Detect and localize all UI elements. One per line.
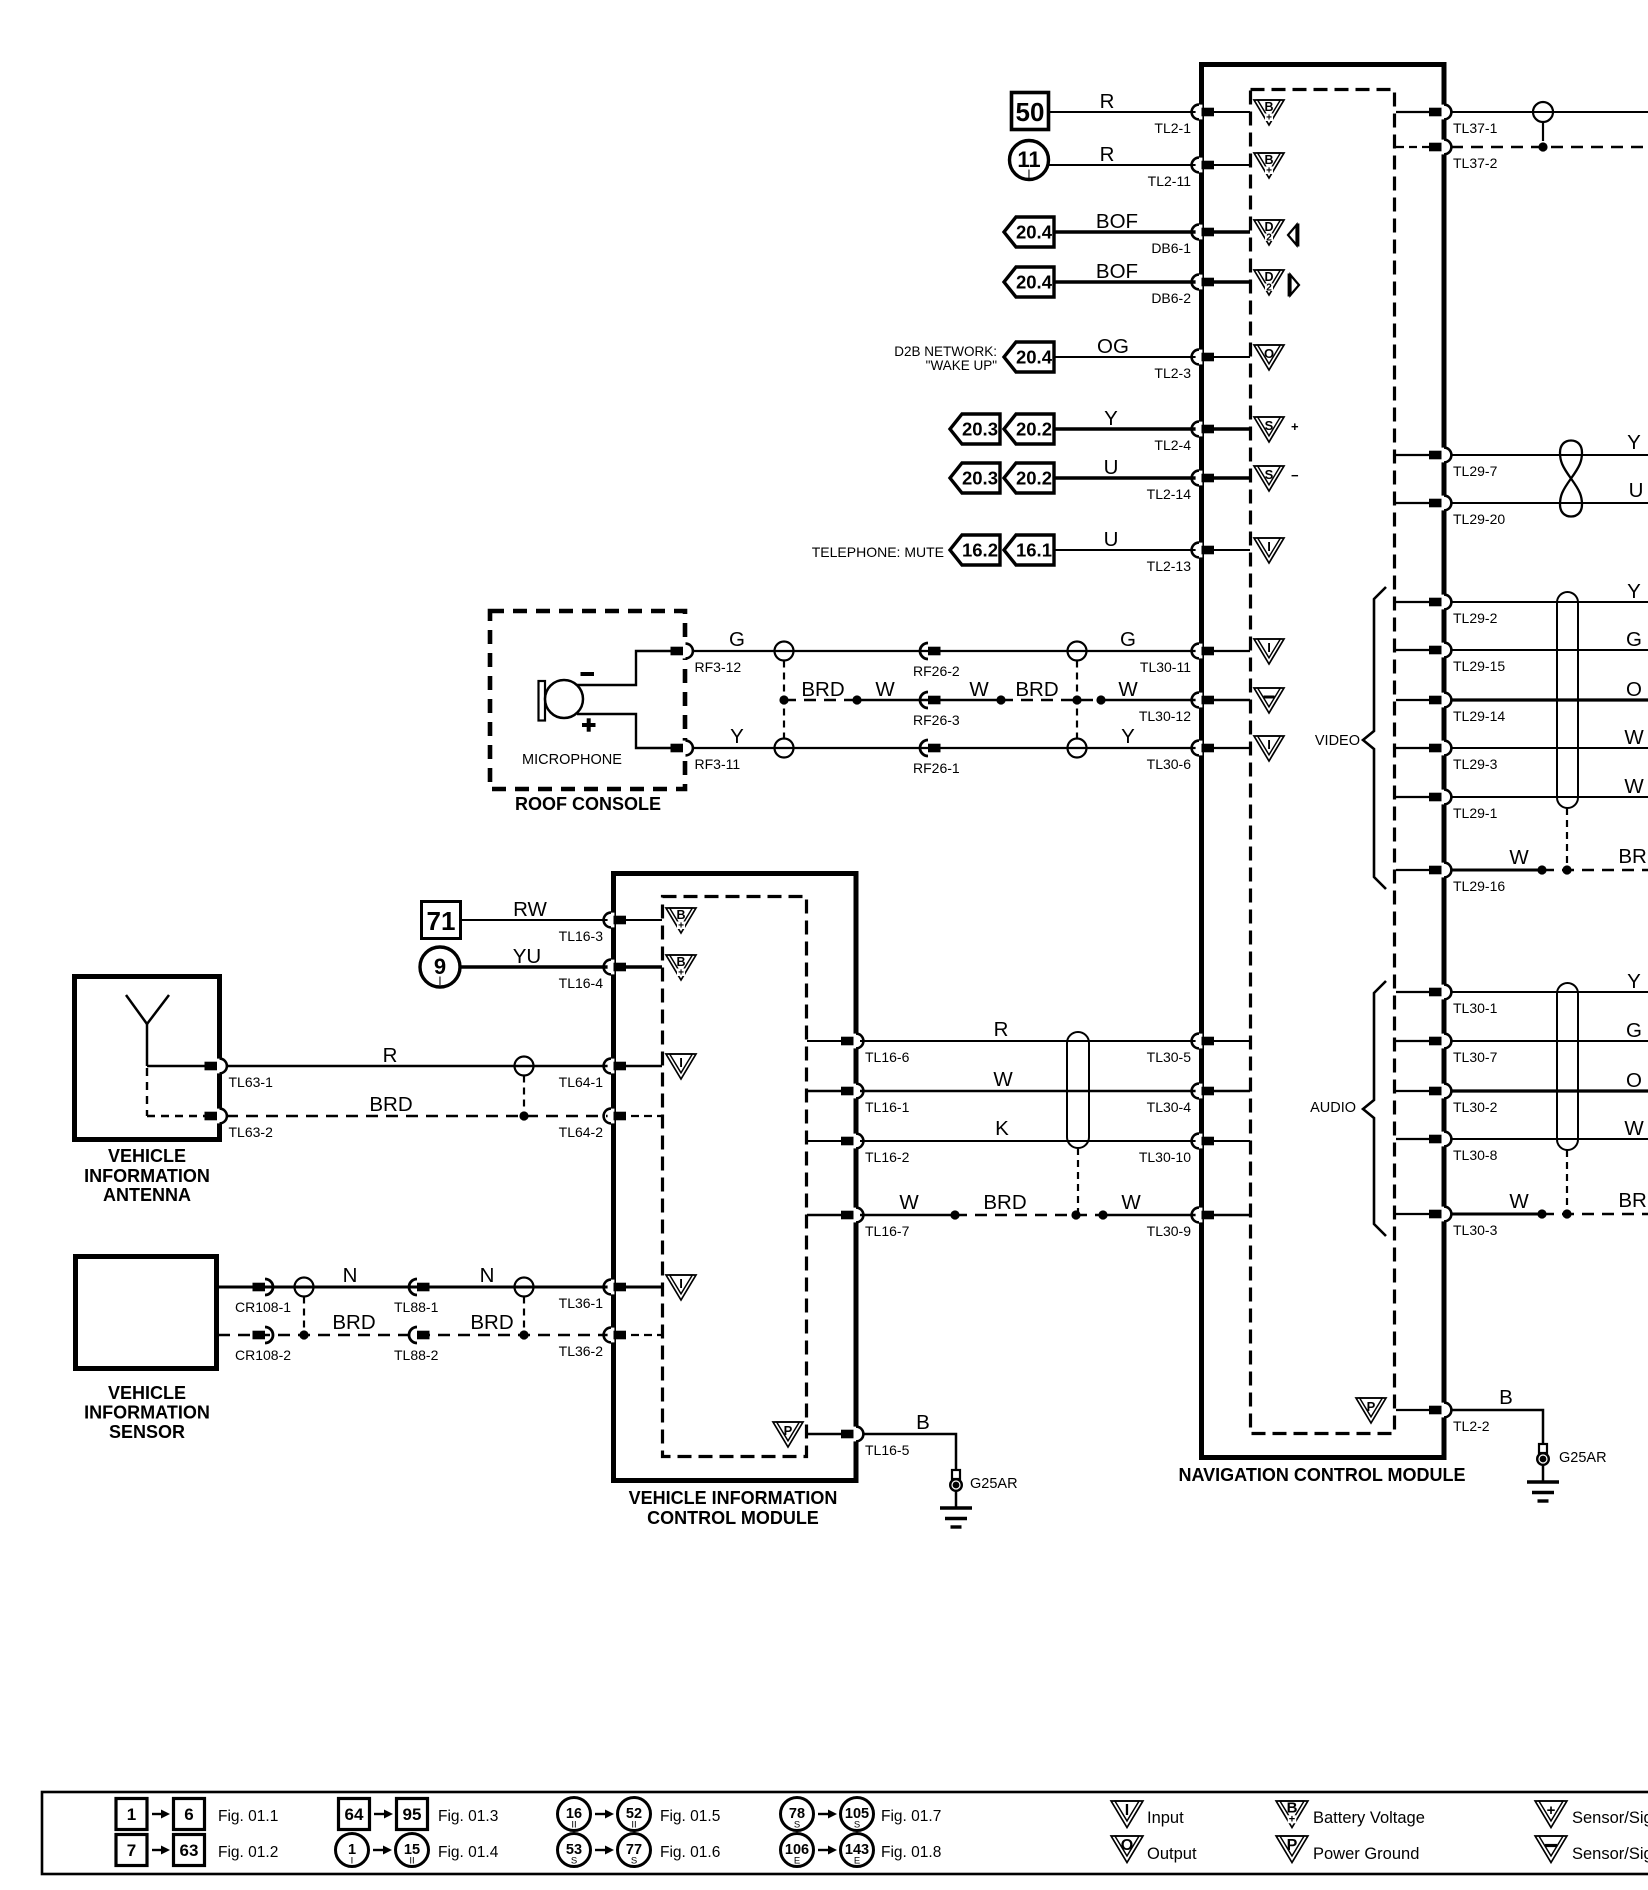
- pin TL16-4: [608, 960, 615, 975]
- svg-text:64: 64: [345, 1805, 364, 1824]
- svg-text:R: R: [383, 1044, 398, 1067]
- svg-text:TL29-20: TL29-20: [1453, 511, 1505, 527]
- legend fig 01.4: [336, 1834, 369, 1867]
- svg-text:S: S: [571, 1856, 577, 1867]
- svg-text:I: I: [1027, 169, 1030, 181]
- svg-text:Battery Voltage: Battery Voltage: [1313, 1809, 1425, 1827]
- svg-text:W: W: [1118, 678, 1138, 701]
- svg-text:W: W: [1624, 1117, 1644, 1140]
- symbol input TL2-13: [1254, 538, 1284, 563]
- symbol battery voltage TL16-4: [666, 955, 696, 980]
- VICM inner stubs left: [618, 919, 662, 921]
- svg-text:S: S: [794, 1820, 800, 1831]
- connector box 50: [1012, 93, 1049, 130]
- wire W to TL30-12: [1101, 699, 1197, 701]
- svg-text:TL29-3: TL29-3: [1453, 756, 1498, 772]
- inline connector circle TL37-1: [1533, 102, 1553, 122]
- svg-text:TL2-13: TL2-13: [1147, 558, 1192, 574]
- vehicle information antenna box: [75, 977, 220, 1140]
- svg-text:W: W: [1121, 1191, 1141, 1214]
- symbol power ground TL16-5: [773, 1422, 803, 1447]
- symbol input TL30-6: [1254, 736, 1284, 761]
- pin TL29-2: [1441, 595, 1448, 610]
- legend symbol input: [1111, 1801, 1143, 1828]
- junction dot: [519, 1111, 528, 1120]
- wire O audio TL30 out y=1091: [1451, 1089, 1648, 1092]
- svg-text:20.4: 20.4: [1016, 272, 1053, 293]
- svg-text:P: P: [1287, 1837, 1298, 1854]
- svg-text:INFORMATION: INFORMATION: [84, 1403, 210, 1423]
- svg-text:TL29-14: TL29-14: [1453, 708, 1505, 724]
- svg-text:TL29-1: TL29-1: [1453, 805, 1498, 821]
- legend fig 01.8: [781, 1834, 814, 1867]
- pin TL16-1: [853, 1084, 860, 1099]
- svg-text:I: I: [438, 976, 441, 988]
- speaker glyph right: [1291, 275, 1300, 295]
- svg-text:TELEPHONE: MUTE: TELEPHONE: MUTE: [812, 544, 944, 560]
- svg-text:TL30-5: TL30-5: [1147, 1049, 1192, 1065]
- AUDIO brace: [1363, 981, 1386, 1236]
- svg-text:BRD: BRD: [1618, 1189, 1648, 1212]
- connector arrow 20.3 (U): [950, 463, 1000, 493]
- audio shield capsule: [1557, 983, 1578, 1150]
- pin TL30-5: [1196, 1034, 1203, 1049]
- svg-text:P: P: [784, 1423, 793, 1438]
- wire R antenna TL63-1 to TL64-1: [147, 1065, 208, 1068]
- wire Y RF3-11 to TL30-6: [692, 747, 1197, 749]
- svg-text:Fig. 01.2: Fig. 01.2: [218, 1844, 278, 1861]
- wire OG to TL2-3: [1054, 356, 1197, 358]
- splice dot: [996, 695, 1005, 704]
- legend fig 01.3: [339, 1799, 370, 1830]
- svg-text:Fig. 01.5: Fig. 01.5: [660, 1808, 720, 1825]
- navigation control module U2 outer box: [1202, 65, 1445, 1458]
- svg-text:Sensor/Sig: Sensor/Sig: [1572, 1809, 1648, 1827]
- svg-text:W: W: [993, 1068, 1013, 1091]
- vehicle information control module U1 outer box: [614, 874, 857, 1481]
- svg-text:BRD: BRD: [332, 1311, 375, 1334]
- wire Y audio TL30 out y=992: [1451, 991, 1648, 993]
- connector RF26-3: [920, 692, 928, 708]
- pin TL2-1: [1196, 105, 1203, 120]
- symbol input TL64-1: [666, 1054, 696, 1079]
- svg-text:U: U: [1104, 528, 1119, 551]
- wire U TL29-20 out: [1451, 502, 1648, 504]
- svg-text:Fig. 01.7: Fig. 01.7: [881, 1808, 941, 1825]
- junction dot right drain: [1072, 695, 1081, 704]
- wire RW from 71 to TL16-3: [461, 919, 609, 921]
- svg-text:Y: Y: [730, 725, 744, 748]
- svg-text:2: 2: [1266, 233, 1272, 244]
- svg-text:50: 50: [1016, 97, 1045, 127]
- svg-text:TL30-11: TL30-11: [1140, 659, 1191, 675]
- NCM inner stubs left: [1206, 111, 1250, 113]
- pin RF3-12: [682, 644, 689, 659]
- wire Y TL29-7 out: [1451, 454, 1648, 456]
- svg-text:INFORMATION: INFORMATION: [84, 1166, 210, 1186]
- svg-text:O: O: [1264, 346, 1274, 361]
- pin TL63-1: [216, 1059, 223, 1074]
- svg-text:TL30-7: TL30-7: [1453, 1049, 1498, 1065]
- svg-text:TL29-7: TL29-7: [1453, 463, 1498, 479]
- wire U to TL2-13: [1054, 549, 1197, 551]
- symbol D2 right DB6-2: [1254, 270, 1284, 295]
- svg-text:TL2-11: TL2-11: [1148, 173, 1192, 189]
- svg-text:16.2: 16.2: [962, 540, 998, 561]
- inline connector circle on N wire right: [515, 1278, 534, 1297]
- svg-text:I: I: [351, 1856, 354, 1867]
- svg-text:W: W: [1509, 1190, 1529, 1213]
- inline connector circle on Y wire: [775, 739, 794, 758]
- svg-text:O: O: [1626, 678, 1642, 701]
- pin TL29-16: [1441, 863, 1448, 878]
- svg-text:N: N: [480, 1264, 495, 1287]
- svg-text:I: I: [679, 1276, 683, 1291]
- microphone minus sign: [581, 672, 595, 676]
- wire K TL16-2 to TL30-10: [860, 1140, 1197, 1142]
- vehicle information control module inner dashed box: [663, 897, 807, 1457]
- svg-text:Y: Y: [1104, 407, 1118, 430]
- svg-text:63: 63: [180, 1841, 199, 1860]
- pin TL30-9: [1196, 1208, 1203, 1223]
- legend fig 01.5: [558, 1798, 591, 1831]
- pin TL64-1: [608, 1059, 615, 1074]
- wire BOF to DB6-1: [1054, 230, 1197, 233]
- svg-text:TL16-7: TL16-7: [865, 1223, 910, 1239]
- pin DB6-2: [1196, 275, 1203, 290]
- wire W video TL29 out y=748: [1451, 747, 1648, 749]
- microphone symbol: [539, 681, 546, 721]
- pin TL30-7: [1441, 1034, 1448, 1049]
- wire TL37-1 out: [1451, 111, 1648, 113]
- svg-text:VEHICLE: VEHICLE: [108, 1383, 186, 1403]
- pin TL29-3: [1441, 741, 1448, 756]
- svg-text:G25AR: G25AR: [1559, 1450, 1607, 1466]
- drop from circle to TL37-2: [1542, 122, 1544, 141]
- wire B TL2-2 to ground G25AR: [1451, 1410, 1543, 1445]
- svg-text:TL64-2: TL64-2: [559, 1124, 604, 1140]
- svg-text:U: U: [1629, 479, 1644, 502]
- svg-text:OG: OG: [1097, 335, 1129, 358]
- ground G25AR (VICM): [952, 1470, 960, 1479]
- wire G RF3-12 to TL30-11: [692, 650, 1197, 652]
- svg-text:TL63-2: TL63-2: [229, 1124, 274, 1140]
- svg-text:G: G: [1626, 1019, 1642, 1042]
- legend symbol output: [1111, 1836, 1143, 1863]
- svg-text:I: I: [1267, 737, 1271, 752]
- svg-text:W: W: [969, 678, 989, 701]
- svg-text:+: +: [1266, 113, 1272, 124]
- legend box: [42, 1792, 1648, 1874]
- svg-text:K: K: [995, 1117, 1009, 1140]
- pin TL30-4: [1196, 1084, 1203, 1099]
- pin TL30-10: [1196, 1134, 1203, 1149]
- pin TL2-13: [1196, 543, 1203, 558]
- svg-text:Sensor/Sig: Sensor/Sig: [1572, 1845, 1648, 1863]
- svg-text:Fig. 01.1: Fig. 01.1: [218, 1808, 278, 1825]
- microphone plus sign: [582, 723, 596, 727]
- pin TL30-3: [1441, 1207, 1448, 1222]
- svg-text:O: O: [1626, 1069, 1642, 1092]
- connector arrow 20.2 (U): [1004, 463, 1054, 493]
- svg-text:MICROPHONE: MICROPHONE: [522, 752, 622, 768]
- pin TL16-2: [853, 1134, 860, 1149]
- inline connector circle on G wire: [775, 642, 794, 661]
- drain dashed drop: [523, 1076, 525, 1117]
- svg-text:TL30-6: TL30-6: [1147, 756, 1192, 772]
- pin TL16-5: [853, 1427, 860, 1442]
- svg-text:20.2: 20.2: [1016, 419, 1052, 440]
- svg-text:R: R: [994, 1018, 1009, 1041]
- legend fig 01.1: [116, 1799, 147, 1830]
- pin TL16-3: [608, 913, 615, 928]
- pin TL30-8: [1441, 1132, 1448, 1147]
- svg-text:VIDEO: VIDEO: [1315, 733, 1360, 749]
- pin TL16-6: [853, 1034, 860, 1049]
- drain dashed vertical right: [1076, 661, 1078, 739]
- symbol battery voltage TL16-3: [666, 908, 696, 933]
- legend symbol power ground: [1276, 1836, 1308, 1863]
- video shield capsule: [1557, 592, 1578, 808]
- wire B TL16-5 to ground G25AR: [863, 1434, 956, 1471]
- svg-text:TL36-1: TL36-1: [559, 1295, 604, 1311]
- vehicle information sensor box: [76, 1257, 217, 1369]
- wire U to TL2-14: [1054, 476, 1197, 479]
- pin TL29-14: [1441, 693, 1448, 708]
- pin TL29-7: [1441, 448, 1448, 463]
- symbol D2 left TL DB6-1: [1254, 220, 1284, 245]
- svg-text:ANTENNA: ANTENNA: [103, 1185, 191, 1205]
- svg-text:TL64-1: TL64-1: [559, 1074, 604, 1090]
- svg-text:BRD: BRD: [1015, 678, 1058, 701]
- video shield drain: [1566, 808, 1568, 870]
- svg-text:II: II: [631, 1820, 636, 1831]
- svg-text:Fig. 01.6: Fig. 01.6: [660, 1844, 720, 1861]
- svg-text:I: I: [1125, 1802, 1129, 1819]
- svg-text:TL29-2: TL29-2: [1453, 610, 1498, 626]
- pin TL37-1: [1441, 105, 1448, 120]
- svg-text:TL16-4: TL16-4: [559, 975, 604, 991]
- wire W shield TL30-3: [1451, 1213, 1542, 1216]
- svg-text:20.4: 20.4: [1016, 222, 1053, 243]
- svg-text:W: W: [875, 678, 895, 701]
- svg-text:D2B NETWORK:: D2B NETWORK:: [894, 344, 997, 359]
- svg-text:7: 7: [127, 1841, 136, 1860]
- legend fig 01.2: [116, 1835, 147, 1866]
- wire W audio TL30 out y=1139: [1451, 1138, 1648, 1140]
- svg-text:Fig. 01.3: Fig. 01.3: [438, 1808, 498, 1825]
- legend symbol sensor plus: [1535, 1801, 1567, 1828]
- inline connector circle on R wire: [515, 1057, 534, 1076]
- svg-text:20.4: 20.4: [1016, 347, 1053, 368]
- svg-text:TL29-16: TL29-16: [1453, 878, 1505, 894]
- pin TL2-3: [1196, 350, 1203, 365]
- pin TL29-1: [1441, 790, 1448, 805]
- svg-text:BRD: BRD: [801, 678, 844, 701]
- svg-text:6: 6: [184, 1805, 193, 1824]
- connector arrow 20.2 (Y): [1004, 414, 1054, 444]
- connector arrow 20.4 (DB6-2): [1004, 267, 1054, 297]
- wire Y to TL2-4: [1054, 427, 1197, 430]
- wire W TL16-1 to TL30-4: [860, 1090, 1197, 1093]
- pin TL29-15: [1441, 643, 1448, 658]
- svg-text:TL29-15: TL29-15: [1453, 658, 1505, 674]
- svg-text:S: S: [631, 1856, 637, 1867]
- wire BRD drain to W splice: [784, 699, 857, 701]
- svg-text:TL30-9: TL30-9: [1147, 1223, 1192, 1239]
- wire TL37-2 dashed out: [1451, 146, 1648, 149]
- symbol power ground TL2-2: [1356, 1398, 1386, 1423]
- symbol output TL2-3: [1254, 345, 1284, 370]
- svg-text:−: −: [1291, 468, 1299, 483]
- legend fig 01.6: [558, 1834, 591, 1867]
- svg-text:Power Ground: Power Ground: [1313, 1845, 1419, 1863]
- svg-text:TL16-6: TL16-6: [865, 1049, 910, 1065]
- svg-text:TL30-1: TL30-1: [1453, 1000, 1498, 1016]
- svg-text:II: II: [409, 1856, 414, 1867]
- twisted pair symbol: [1560, 441, 1582, 479]
- connector TL88-1: [409, 1279, 417, 1295]
- pin TL2-14: [1196, 471, 1203, 486]
- svg-text:+: +: [1547, 1802, 1556, 1819]
- svg-text:II: II: [571, 1820, 576, 1831]
- svg-text:TL63-1: TL63-1: [229, 1074, 274, 1090]
- pin TL29-20: [1441, 496, 1448, 511]
- pin TL30-2: [1441, 1084, 1448, 1099]
- speaker glyph left: [1288, 225, 1297, 245]
- wire R from 50 to TL2-1: [1050, 111, 1197, 113]
- svg-text:YU: YU: [513, 945, 541, 968]
- svg-text:+: +: [678, 921, 684, 932]
- wire BRD antenna TL63-2 to TL64-2: [146, 1068, 148, 1116]
- connector box 71: [422, 902, 461, 939]
- svg-text:TL30-2: TL30-2: [1453, 1099, 1498, 1115]
- legend symbol sensor minus: [1535, 1836, 1567, 1863]
- wire YU from 9 to TL16-4: [460, 965, 609, 968]
- antenna symbol: [126, 995, 147, 1024]
- svg-text:W: W: [899, 1191, 919, 1214]
- svg-text:G: G: [729, 628, 745, 651]
- svg-text:TL2-3: TL2-3: [1154, 365, 1191, 381]
- svg-text:S: S: [854, 1820, 860, 1831]
- inline connector circle on N wire: [295, 1278, 314, 1297]
- connector CR108-1: [253, 1283, 266, 1292]
- svg-text:TL30-10: TL30-10: [1139, 1149, 1191, 1165]
- pin TL2-2: [1441, 1403, 1448, 1418]
- symbol sensor minus TL2-14: [1254, 466, 1284, 491]
- svg-text:2: 2: [1266, 283, 1272, 294]
- connector RF26-1: [920, 740, 928, 756]
- svg-text:I: I: [1267, 640, 1271, 655]
- symbol minus TL30-12: [1254, 688, 1284, 713]
- svg-text:O: O: [1121, 1837, 1133, 1854]
- svg-text:W: W: [1624, 775, 1644, 798]
- svg-text:Fig. 01.4: Fig. 01.4: [438, 1844, 499, 1861]
- pin DB6-1: [1196, 225, 1203, 240]
- svg-text:G: G: [1626, 628, 1642, 651]
- pin TL63-2: [216, 1109, 223, 1124]
- connector arrow 20.3 (Y): [950, 414, 1000, 444]
- pin TL37-2: [1441, 140, 1448, 155]
- svg-text:TL88-2: TL88-2: [394, 1347, 439, 1363]
- symbol battery voltage TL2-11: [1254, 153, 1284, 178]
- svg-text:CONTROL MODULE: CONTROL MODULE: [647, 1508, 819, 1528]
- connector arrow 20.4 (TL2-3): [1004, 342, 1054, 372]
- svg-text:20.3: 20.3: [962, 419, 998, 440]
- svg-text:Fig. 01.8: Fig. 01.8: [881, 1844, 941, 1861]
- svg-text:P: P: [1367, 1399, 1376, 1414]
- svg-text:VEHICLE INFORMATION: VEHICLE INFORMATION: [629, 1488, 838, 1508]
- svg-text:TL16-2: TL16-2: [865, 1149, 910, 1165]
- pin TL36-2: [608, 1328, 615, 1343]
- splice dot: [852, 695, 861, 704]
- connector TL88-2: [409, 1327, 417, 1343]
- wire R from 11 to TL2-11: [1048, 164, 1197, 166]
- svg-text:E: E: [794, 1856, 800, 1867]
- svg-text:Input: Input: [1147, 1809, 1184, 1827]
- pin TL36-1: [608, 1280, 615, 1295]
- ground G25AR (NCM): [1539, 1444, 1547, 1453]
- symbol input TL30-11: [1254, 639, 1284, 664]
- legend fig 01.7: [781, 1798, 814, 1831]
- connector arrow 16.1: [1004, 535, 1054, 565]
- svg-text:RF26-1: RF26-1: [913, 760, 960, 776]
- connector CR108-2: [253, 1331, 266, 1340]
- svg-text:TL2-4: TL2-4: [1154, 437, 1191, 453]
- svg-text:N: N: [343, 1264, 358, 1287]
- svg-text:RF3-12: RF3-12: [695, 659, 742, 675]
- svg-text:I: I: [1267, 539, 1271, 554]
- svg-text:BOF: BOF: [1096, 260, 1138, 283]
- pin TL30-1: [1441, 985, 1448, 1000]
- wire BOF to DB6-2: [1054, 280, 1197, 283]
- svg-text:+: +: [678, 968, 684, 979]
- wire N sensor to TL36-1: [218, 1286, 609, 1289]
- svg-text:U: U: [1104, 456, 1119, 479]
- svg-text:20.3: 20.3: [962, 468, 998, 489]
- VIDEO brace: [1363, 587, 1386, 889]
- wire W shield TL29-16: [1451, 869, 1542, 872]
- wire W shield TL16-7 to TL30-9: [860, 1214, 955, 1216]
- svg-text:DB6-2: DB6-2: [1151, 290, 1191, 306]
- pin TL30-12: [1196, 693, 1203, 708]
- svg-text:AUDIO: AUDIO: [1310, 1100, 1356, 1116]
- VICM inner stubs right: [807, 1040, 849, 1042]
- svg-text:W: W: [1624, 726, 1644, 749]
- svg-text:DB6-1: DB6-1: [1151, 240, 1191, 256]
- connector arrow 20.4 (DB6-1): [1004, 217, 1054, 247]
- svg-text:TL30-3: TL30-3: [1453, 1222, 1498, 1238]
- svg-text:Y: Y: [1627, 431, 1641, 454]
- svg-text:TL16-3: TL16-3: [559, 928, 604, 944]
- svg-text:+: +: [1266, 166, 1272, 177]
- svg-text:RW: RW: [513, 898, 547, 921]
- connector arrow 16.2: [950, 535, 1000, 565]
- pin RF3-11: [682, 741, 689, 756]
- svg-text:BRD: BRD: [1618, 845, 1648, 868]
- shield capsule VICM-NCM: [1067, 1032, 1089, 1148]
- pin TL64-2: [608, 1109, 615, 1124]
- svg-text:TL36-2: TL36-2: [559, 1343, 604, 1359]
- symbol input TL36-1: [666, 1275, 696, 1300]
- svg-text:G25AR: G25AR: [970, 1476, 1018, 1492]
- svg-text:71: 71: [427, 906, 456, 936]
- svg-text:NAVIGATION CONTROL MODULE: NAVIGATION CONTROL MODULE: [1179, 1465, 1466, 1485]
- svg-text:R: R: [1100, 90, 1115, 113]
- roof console dashed box: [490, 611, 685, 789]
- drain drops sensor: [303, 1297, 305, 1336]
- svg-text:+: +: [1289, 1814, 1295, 1826]
